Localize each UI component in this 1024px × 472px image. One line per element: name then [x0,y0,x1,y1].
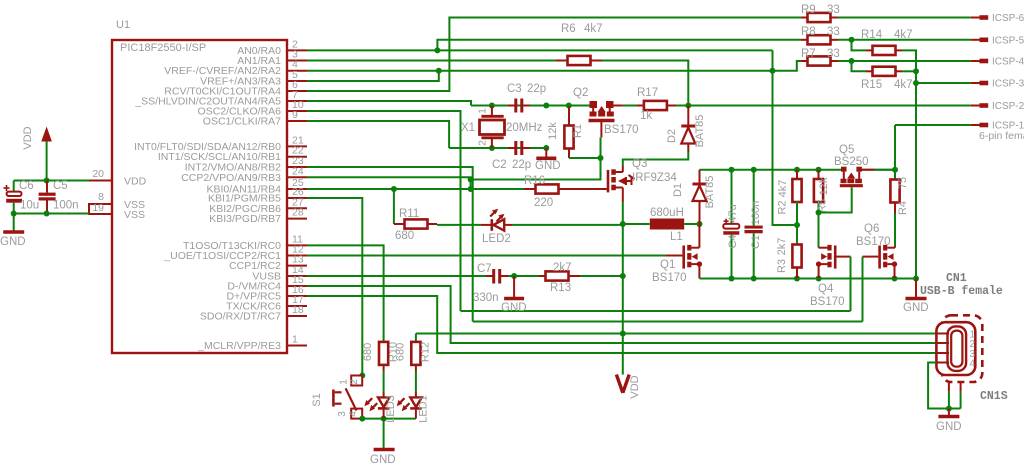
pin 11 stub [287,244,307,246]
pin name OSC1/CLKI/RA7 [203,116,281,128]
pin name VDD [124,176,147,188]
pin number 26 [292,186,304,198]
pin 25 stub [287,188,307,190]
wire pin5 row [307,71,439,81]
label C2 [492,159,507,171]
svg-text:X1: X1 [461,122,475,134]
wire R9 to ICSP-6 [838,17,971,19]
wire ICSP-3 row [916,82,971,84]
svg-text:U1: U1 [116,19,130,31]
svg-text:R6: R6 [561,23,576,35]
pin 1 stub [287,345,307,347]
capacitor C5 [39,181,56,214]
junction pin4 row tap [770,68,776,74]
label 10u [20,200,39,212]
label S1 pin 2 [349,379,360,385]
label R9 [801,4,816,16]
svg-text:BS170: BS170 [604,124,639,136]
label USB pin 2 [970,339,976,350]
connector ICSP-4 stub [971,60,988,62]
pin 18 stub [287,315,307,317]
junction pin5-pin4 [436,68,442,74]
label ICSP-2 [992,101,1024,112]
svg-text:4k7: 4k7 [777,180,789,198]
label R17 value 1k [640,110,652,122]
label Q6 [864,223,879,235]
label CN1S [980,390,1008,403]
pin name INT2/VMO/AN8/RB2 [185,162,281,174]
pin name TX/CK/RC6 [226,301,281,313]
svg-text:9: 9 [292,109,298,121]
pin 7 stub [287,100,307,102]
label R4 value 75 [897,177,909,189]
svg-text:1: 1 [478,108,489,114]
wire pin23 row [307,167,473,322]
label Q1 value BS170 [652,272,687,284]
label R8 value 33 [827,26,840,38]
junction Q6 source rail [892,276,898,282]
junction R8-R14 [849,37,855,43]
svg-text:22p: 22p [527,83,546,95]
wire R14 to gnd column [902,50,916,278]
label R17 [637,87,658,99]
transistor Q4 [816,245,851,279]
svg-text:R14: R14 [861,29,883,41]
label C3 value 22p [527,83,546,95]
label R16 [524,175,545,187]
junction R1 top [566,103,572,109]
pin 17 stub [287,305,307,307]
pin name T1OSO/T13CKI/RC0 [183,240,281,252]
junction usb gnd [946,406,952,412]
svg-text:S1: S1 [311,393,323,406]
svg-text:10u: 10u [20,200,39,212]
wire Q4 gate row [461,310,851,312]
junction C1 bottom [751,276,757,282]
wire R11 to LED2 [437,224,481,226]
svg-text:12k: 12k [547,122,559,140]
wire pin10 row [307,111,461,311]
wire VSS rail [14,213,89,215]
label R5 value 12k [818,177,830,195]
label D2 [666,129,678,143]
pin number 27 [292,196,304,208]
svg-text:680: 680 [395,230,414,242]
svg-text:R4: R4 [897,201,909,215]
wire R7 to ICSP-4 [838,60,971,62]
svg-text:680: 680 [395,343,407,361]
junction C1 top [751,167,757,173]
junction Q3 drain VDD node [620,221,626,227]
svg-text:330n: 330n [473,292,499,304]
pin name D-/VM/RC4 [227,281,281,293]
junction C3-GNDnode [543,103,549,109]
pin USB 4 lead [936,362,949,364]
resistor R6 [556,56,602,65]
pin 3 stub [287,60,307,62]
wire Q3 drain drop [622,202,624,224]
label Q3 value IRF9Z34 [632,172,677,184]
label USB pin 1 [970,330,976,341]
pin 14 stub [287,275,307,277]
pin number 2 [292,38,298,50]
label R12 value 680 [395,343,407,361]
wire Q6 gate drop [862,257,864,322]
wire VDD rail [14,180,89,182]
resistor R9 [801,13,838,22]
label R14 value 4k7 [894,29,913,41]
label R1 value 12k [547,122,559,140]
svg-text:D1: D1 [672,183,684,197]
label GND C7 [501,302,527,314]
pin 10 stub [287,110,307,112]
svg-text:D2: D2 [666,129,678,143]
junction L1-D1-Q1 [697,221,703,227]
capacitor C6 [6,192,22,203]
svg-text:KBI3/PGD/RB7: KBI3/PGD/RB7 [209,213,281,225]
svg-text:L1: L1 [670,231,683,243]
label R1 [572,124,584,138]
wire pin11 row [307,245,384,341]
resistor R17 [637,101,676,110]
pin number 5 [292,69,298,81]
pin name INT0/FLT0/SDI/SDA/AN12/RB0 [134,141,281,153]
label R5 [817,199,829,213]
label 100n [53,200,79,212]
pin 5 stub [287,80,307,82]
pin USB 2 lead [936,342,949,344]
svg-text:BAT85: BAT85 [694,115,706,148]
wire R17 to D2 node [676,105,688,107]
label R2 value 4k7 [777,180,789,198]
pin name VSS 19 [124,209,145,221]
pin 4 stub [287,70,307,72]
pin number 7 [292,89,298,101]
svg-text:C5: C5 [53,180,68,192]
capacitor C7 [486,269,508,284]
label R11 [399,208,419,220]
resistor R13 [539,271,580,280]
label R3 [776,259,788,273]
label R13 value 2k7 [553,262,572,274]
label C3 [507,83,522,95]
pin name INT1/SCK/SCL/AN10/RB1 [158,151,281,163]
pin name SDO/RX/DT/RC7 [200,311,281,323]
svg-text:_MCLR/VPP/RE3: _MCLR/VPP/RE3 [197,340,281,352]
svg-text:1: 1 [292,334,298,346]
label GND left [0,236,26,248]
wire R11 drop [393,189,395,224]
svg-text:LED1: LED1 [418,395,430,423]
label R9 value 33 [827,4,840,16]
wire C7 gnd stub [513,276,515,297]
label LED3 [385,395,397,423]
wire LED gnd stub [383,419,385,448]
svg-text:OSC1/CLKI/RA7: OSC1/CLKI/RA7 [203,116,281,128]
wire R8 branch riser [437,40,801,51]
svg-text:CN1S: CN1S [980,390,1008,403]
label Q1 [660,259,675,271]
wire R6 to D2 node [602,61,688,106]
pin 2 stub [287,49,307,51]
wire C4 lead bottom [731,235,733,279]
label LED1 [418,395,430,423]
wire Q4 gate drop [850,257,852,311]
wire Q5 right pad [875,169,895,171]
pin number 1 [292,334,298,346]
label R4 [897,201,909,215]
pin number 17 [292,294,304,306]
junction S-path to pin25 row [468,186,474,192]
svg-text:20MHz: 20MHz [506,122,543,134]
label D2 value BAT85 [694,115,706,148]
label CN1 [946,272,967,285]
wire Q6 gate row [473,321,863,323]
svg-text:Q1: Q1 [660,259,675,271]
svg-text:VDD: VDD [629,375,641,398]
pin number 25 [292,177,304,189]
svg-text:SDO/RX/DT/RC7: SDO/RX/DT/RC7 [200,311,281,323]
label S1 pin 1 [339,379,350,385]
wire VDD column [622,224,624,375]
pin number 4 [292,59,298,71]
wire C7 to R13 [508,275,539,277]
resistor R5 [814,170,823,213]
wire C4 lead top [731,170,733,224]
pin name _MCLR/VPP/RE3 [197,340,281,352]
wire GND rail [700,278,917,280]
connector ICSP-1 stub [971,124,988,126]
pin 21 stub [287,145,307,147]
label R14 [861,29,883,41]
pin number 22 [292,145,304,157]
wire R15 to gnd column [902,70,916,72]
label Q2 value BS170 [604,124,639,136]
diode D2 [681,106,695,153]
label C2 value 22p [512,159,531,171]
svg-text:4k7: 4k7 [894,29,913,41]
svg-text:GND: GND [370,454,396,466]
wire pin26 row [307,198,362,375]
svg-text:BS170: BS170 [652,272,687,284]
wire usb gnd stub [948,409,950,416]
connector ICSP-5 stub [971,39,988,41]
wire LED2 to VDD node [512,224,622,226]
label USB pin 4 [970,359,976,370]
wire R15 branch [852,61,867,71]
wire S1 to gnd rail [362,418,416,420]
svg-text:ICSP-2: ICSP-2 [992,101,1024,112]
label ICSP-3 [992,79,1024,90]
svg-text:BS170: BS170 [856,236,891,248]
svg-text:LED2: LED2 [482,233,511,245]
svg-text:24: 24 [292,165,304,177]
label R7 value 33 [827,48,840,60]
VDD symbol top-left [41,127,52,182]
wire node to Q2 [546,105,591,107]
wire pin4 row [307,61,801,71]
pin number 12 [292,244,304,256]
pin name _SS/HLVDIN/C2OUT/AN4/RA5 [134,96,281,108]
pin 28 stub [287,218,307,220]
pin number 10 [292,99,304,111]
svg-text:4k7: 4k7 [894,79,913,91]
label U1 [116,19,130,31]
resistor R15 [866,67,902,76]
junction gnd rail corner [913,276,919,282]
junction Q2 gate node [598,155,604,161]
label S1 [311,393,323,406]
resistor R16 [524,184,608,193]
junction R7-R15 [849,58,855,64]
capacitor C6 plus [4,185,10,191]
pin name KBI1/PGM/RB5 [208,193,281,205]
svg-text:ICSP-6: ICSP-6 [992,13,1024,24]
pin name CCP1/RC2 [229,260,281,272]
svg-text:IRF9Z34: IRF9Z34 [632,172,677,184]
svg-text:Q6: Q6 [864,223,879,235]
wire L1 to D1 node [684,223,699,225]
label D1 value BAT85 [704,176,716,209]
pin 27 stub [287,207,307,209]
junction C6 bottom [11,211,17,217]
wire R5 to Q4 drain [818,213,820,248]
junction pin2-R8 branch [434,47,440,53]
wire VBUS to R12 [415,334,417,343]
label Q4 [818,283,834,295]
wire Q2 drain to R17 [614,105,638,107]
ground symbol crystal [536,157,556,161]
pin name VREF-/CVREF/AN2/RA2 [164,65,281,77]
label VDD top-left [22,126,34,149]
resistor R8 [801,35,838,44]
pin number 11 [292,233,303,245]
label Q5 [839,144,854,156]
capacitor C1 [745,170,763,279]
pin 26 stub [287,197,307,199]
wire pin6 row [307,18,801,92]
wire C2 gnd stub [545,148,547,157]
svg-text:VSS: VSS [124,209,145,221]
svg-text:GND: GND [903,302,929,314]
svg-text:R15: R15 [861,79,882,91]
wire D- row [307,286,936,343]
wire Q2 gate drop [600,137,602,158]
svg-text:LED3: LED3 [385,395,397,423]
junction C4 top [729,167,735,173]
ground symbol right rail [906,279,927,299]
svg-text:33: 33 [827,48,840,60]
label R10 [388,342,400,362]
junction VDD-C5 [44,178,50,184]
pin name KBI0/AN11/RB4 [206,184,281,196]
svg-text:4: 4 [348,411,359,417]
capacitor C4 [723,224,739,235]
wire pin25 row [307,188,524,190]
connector ICSP-6 stub [971,17,988,19]
pin number 13 [292,254,304,266]
svg-text:28: 28 [292,207,304,219]
svg-text:Q3: Q3 [632,158,647,170]
LED LED1 [397,392,422,419]
crystal X1 [480,106,505,149]
svg-text:18: 18 [292,304,304,316]
pin name OSC2/CLKO/RA6 [198,106,282,118]
ground symbol USB [938,415,959,419]
wire VBUS row [416,333,937,335]
svg-text:ICSP-5: ICSP-5 [992,35,1024,46]
svg-text:CCP2/VPO/AN9/RB3: CCP2/VPO/AN9/RB3 [181,172,281,184]
junction ICSP-3 tap [913,80,919,86]
label ICSP-1 [992,121,1024,132]
svg-text:19: 19 [92,202,104,214]
svg-text:1: 1 [339,379,350,385]
svg-text:33: 33 [827,4,840,16]
label S1 pin 3 [337,411,348,417]
svg-text:47u: 47u [727,204,739,222]
wire R8 to ICSP-5 [838,39,971,41]
svg-text:R16: R16 [524,175,545,187]
transistor Q3 [608,166,635,202]
pin number 6 [292,79,298,91]
capacitor C4 plus [724,219,729,224]
label Q3 [632,158,647,170]
label GND LEDs [370,454,396,466]
label R13 [550,282,571,294]
label L1 value 680uH [650,207,684,219]
svg-text:PIC18F2550-I/SP: PIC18F2550-I/SP [120,42,206,54]
wire VPP rail [700,169,845,171]
wire pin7 row [307,101,471,106]
pin name KBI3/PGD/RB7 [209,213,281,225]
svg-text:1k: 1k [640,110,652,122]
pin name VREF+/AN3/RA3 [200,76,281,88]
junction C4 bottom [729,276,735,282]
label Q2 [573,87,588,99]
svg-text:R11: R11 [399,208,419,220]
svg-text:100n: 100n [750,201,762,225]
label R6 [561,23,576,35]
LED LED2 [481,209,513,231]
wire pin14 row [307,275,486,277]
junction C5 bottom [44,211,50,217]
pin 13 stub [287,265,307,267]
svg-text:C3: C3 [507,83,522,95]
svg-text:BS250: BS250 [834,156,869,168]
wire pin12 row [307,255,665,257]
wire crystal bottom node [449,147,546,149]
label R12 [420,342,432,362]
label R15 value 4k7 [894,79,913,91]
label R15 [861,79,882,91]
resistor R2 [792,170,801,225]
junction S1 pin4 [359,416,365,422]
wire VDD node to L1 [623,223,650,225]
pin USB 1 lead [936,333,949,335]
wire S-path [471,158,601,180]
pin name KBI2/PGC/RB6 [209,203,281,215]
label C6 [19,180,34,192]
pin 23 stub [287,166,307,168]
svg-text:R12: R12 [420,342,432,362]
capacitor C2 [508,141,530,155]
svg-text:R2: R2 [777,200,789,214]
junction S1 pin2 [359,373,365,379]
pin name AN0/RA0 [237,45,281,57]
junction R3 bottom [794,276,800,282]
pin number 9 [292,109,298,121]
VDD symbol bottom [616,375,629,393]
